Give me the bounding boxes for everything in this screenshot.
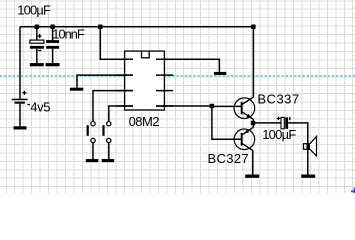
transistor Q2 BC327 — [242, 127, 254, 135]
wire C3 to speaker — [288, 123, 308, 144]
C1 plus sign — [38, 34, 42, 38]
node junction top rail / IC pin1 — [98, 25, 103, 30]
ground below battery — [14, 126, 27, 129]
U1 pin stubs (pins 1-8) — [116, 59, 173, 106]
battery B1 minus plate — [15, 102, 25, 104]
transistor Q1 BC337 — [242, 97, 254, 104]
wire Q2 collector to ground — [252, 151, 254, 175]
page corner marker — [351, 188, 355, 195]
wire to Q1 base — [212, 105, 242, 107]
node junction top rail / C1 — [35, 25, 40, 30]
wire rail to C1 — [36, 27, 38, 40]
ground at IC pin 8 — [214, 72, 226, 75]
wire output node to C3 — [253, 122, 281, 124]
wire IC pin 5 to transistor bases — [156, 105, 212, 107]
capacitor C1 negative plate — [30, 46, 44, 49]
svg-text:100µF: 100µF — [17, 2, 51, 17]
wire to Q2 base — [212, 106, 242, 139]
wire speaker to ground — [307, 149, 309, 174]
U1 notch — [142, 51, 150, 58]
node junction rail / Q1 collector — [251, 25, 256, 30]
ground below C1 — [30, 63, 44, 66]
wire rail to C2 — [52, 27, 54, 40]
C3 minus tick — [289, 117, 290, 120]
op-amp U1 PICAXE 08M2 body — [125, 51, 165, 110]
ground below SW1 — [86, 159, 99, 162]
wire switch SW1 to IC — [93, 91, 133, 122]
ground at IC pin 2 — [70, 88, 83, 91]
battery B1 plus plate — [12, 99, 28, 101]
node base junction — [210, 104, 215, 109]
wire rail to IC pin 1 — [100, 27, 133, 60]
capacitor C3 100µF positive plate (hollow) — [281, 117, 284, 128]
svg-text:4v5: 4v5 — [30, 100, 50, 115]
svg-text:08M2: 08M2 — [129, 114, 160, 129]
wire switch SW2 to IC — [109, 106, 133, 122]
ground below SW2 — [102, 159, 115, 162]
svg-text:100µF: 100µF — [262, 127, 296, 142]
node junction top rail / C2 — [50, 25, 55, 30]
capacitor C2 plate 1 — [46, 40, 59, 43]
wire Q1 emitter to output node — [252, 119, 254, 123]
svg-text:BC337: BC337 — [257, 91, 299, 106]
wire C2 to ground — [52, 49, 54, 63]
battery minus sign — [27, 104, 30, 105]
switch SW2 push-to-make — [107, 122, 111, 126]
capacitor C2 plate 2 — [46, 46, 59, 49]
switch SW1 push-to-make — [91, 122, 95, 126]
wire IC pin 2 to ground — [77, 75, 133, 88]
wire Q1 collector to V+ rail — [252, 27, 254, 98]
wire SW2 to ground — [108, 143, 110, 159]
speaker LS1 — [304, 144, 311, 150]
battery plus sign — [22, 91, 26, 95]
capacitor C1 positive plate (hollow) — [30, 40, 44, 43]
ground below speaker — [301, 175, 315, 178]
svg-text:BC327: BC327 — [208, 151, 250, 166]
wire output node to Q2 emitter — [252, 123, 254, 127]
wire battery to ground — [19, 104, 21, 127]
C1 minus sign — [38, 50, 41, 51]
C3 plus sign — [277, 117, 280, 120]
wire C1 to ground — [36, 49, 38, 63]
capacitor C3 negative plate — [285, 117, 288, 128]
node output junction — [251, 121, 256, 126]
ground below Q2 — [245, 175, 259, 178]
wire top V+ rail — [20, 26, 253, 28]
wire SW1 to ground — [92, 143, 94, 159]
wire battery to rail — [19, 27, 21, 99]
svg-text:10nnF: 10nnF — [52, 26, 85, 41]
wire IC pin 8 to ground — [156, 59, 219, 72]
ground below C2 — [46, 63, 60, 66]
page boundary dashed line — [0, 75, 355, 77]
